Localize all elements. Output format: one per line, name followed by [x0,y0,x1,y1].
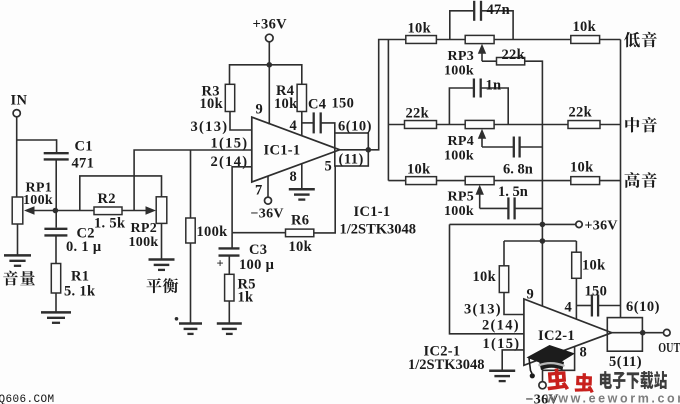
wire node to R6 [232,232,285,234]
terminal -36V IC1 [265,197,272,204]
potentiometer RP5 [465,177,494,185]
svg-text:Q606.COM: Q606.COM [0,394,55,404]
resistor R2 [94,207,122,215]
svg-text:10k: 10k [200,96,224,112]
watermark graduation cap [527,345,576,368]
wire pin 1(15) IC2 [502,350,524,371]
svg-text:RP4: RP4 [448,134,475,149]
wire apex to output dot [340,149,369,151]
label bass [624,32,640,47]
resistor bass right 10k [571,36,600,44]
potentiometer RP1 [12,197,23,224]
ground below 100k [179,322,202,325]
svg-text:C4: C4 [308,96,326,112]
resistor treble right 10k [571,177,600,185]
wire right 10k to pin 4 [575,278,577,319]
wire right bus [620,40,622,319]
wire RP2 to ground [161,223,163,259]
svg-text:100k: 100k [197,224,229,240]
svg-text:www.eeworm.com: www.eeworm.com [545,392,680,404]
wire mid row left [388,124,404,126]
svg-text:5(11): 5(11) [609,354,642,370]
wire junction down to C2 [55,211,57,228]
capacitor 47n bridge [450,11,474,40]
label balance [146,278,161,293]
terminal IN [13,110,20,117]
wire apex to out dot IC2 [612,332,643,334]
svg-text:8: 8 [290,169,298,185]
svg-text:47n: 47n [487,2,510,18]
svg-text:IC1-1: IC1-1 [264,143,301,159]
svg-text:100k: 100k [444,204,474,219]
wire R3 to pin 3(13) [230,112,252,131]
svg-text:C1: C1 [75,139,93,155]
resistor R4 [297,84,306,111]
terminal -36V IC2 [539,382,546,389]
watermark bug 2 [575,373,595,393]
resistor IC2 left 10k [499,266,508,293]
svg-text:10k: 10k [274,96,298,112]
wire RP5 to treble right [494,180,571,182]
wire R4 to pin 4 [301,112,303,137]
resistor R6 [286,229,314,237]
svg-text:10k: 10k [570,160,594,176]
watermark site name [600,371,612,389]
wire bass left to RP3 [436,39,465,41]
svg-text:22k: 22k [502,47,526,63]
junction dot volume node [53,208,59,214]
svg-text:RP5: RP5 [448,190,475,205]
wire pin 9 [268,65,270,125]
wire +36V down [268,42,270,65]
wire R6 to pin 5 [314,166,335,233]
ground below RP1 [4,254,31,257]
wire 6.8n to bus [520,146,543,148]
wire mid left to RP4 [437,124,466,126]
wire 150 to right bus [598,305,620,307]
capacitor C4 [313,112,315,133]
svg-text:R2: R2 [98,191,116,207]
node speck [175,317,179,321]
ground pin 1 IC2 [489,369,515,372]
svg-text:10k: 10k [289,239,313,255]
svg-text:RP3: RP3 [448,49,475,64]
svg-text:1n: 1n [486,78,502,94]
wire R2 to RP2 arrow [122,210,146,212]
wiper arrow RP1 [30,210,55,212]
wire bass right to bus [600,39,621,41]
svg-text:10k: 10k [473,269,497,285]
op-amp IC2 triangle [524,299,612,365]
svg-text:100k: 100k [23,193,53,208]
wire rail to R3 [229,64,231,84]
potentiometer RP3 [465,35,494,43]
svg-text:100k: 100k [444,149,474,164]
capacitor 150 IC2 [591,295,593,317]
wire node to C3 [231,233,233,248]
svg-text:1. 5n: 1. 5n [498,184,528,200]
capacitor 6.8n [513,137,515,158]
svg-text:6(10): 6(10) [626,299,660,315]
wire pin 8 IC2 [543,347,575,370]
junction dot +36V rail [267,62,273,68]
wire R1 to ground [55,293,57,312]
wire IC1 out to bass row [368,40,406,150]
output box IC1 [335,133,369,166]
svg-text:100k: 100k [129,235,159,250]
wire +36V rail [230,64,302,66]
svg-text:6. 8n: 6. 8n [503,161,533,177]
wire pin 2(14) [232,167,252,233]
svg-text:RP2: RP2 [131,221,158,236]
wire 100k to ground [190,243,192,323]
label treble [624,172,639,188]
svg-text:8: 8 [580,345,588,361]
resistor mid left 22k [405,121,437,129]
potentiometer RP2 [156,197,167,224]
svg-text:1/2STK3048: 1/2STK3048 [408,357,485,373]
svg-text:1(15): 1(15) [211,136,249,152]
junction dot bias rail [540,238,546,244]
svg-text:471: 471 [72,156,95,172]
wire RP5 wiper to 1.5n [480,207,508,209]
wire RP3 wiper to 22k [482,60,497,62]
wire R5 to ground [228,301,230,323]
wire RP3 to bass right [494,39,571,41]
capacitor C3 electrolytic [219,247,240,249]
wiper RP4 [478,129,486,139]
potentiometer RP4 [465,120,494,128]
svg-text:R6: R6 [291,213,309,229]
svg-text:1/2STK3048: 1/2STK3048 [340,222,417,238]
wire C4 to output box [321,123,335,133]
svg-text:10k: 10k [408,20,432,36]
svg-text:9: 9 [256,102,264,118]
wire RP1 to ground [17,224,19,255]
svg-text:1k: 1k [238,290,255,306]
svg-text:4: 4 [290,118,298,134]
wiper arrow RP2 [146,206,157,214]
output box IC2 [607,318,642,352]
svg-text:C3: C3 [249,242,267,258]
svg-text:2(14): 2(14) [482,318,520,334]
wire to OUT terminal [643,332,664,334]
svg-text:10k: 10k [407,162,431,178]
wire pin4 branch to 150 [576,305,592,307]
resistor R1 [51,264,60,294]
wire RP4 to mid right [494,124,568,126]
ground below R5 [217,322,242,325]
resistor bass left 10k [406,36,437,44]
svg-text:100k: 100k [444,64,474,79]
wire mid right to bus [600,124,621,126]
wire pin 7 IC2 [542,358,544,382]
svg-text:0. 1 μ: 0. 1 μ [66,239,102,255]
wire left 10k top [503,241,505,266]
svg-text:(11): (11) [339,152,364,168]
resistor IC2 right 10k [572,252,581,278]
svg-text:6(10): 6(10) [338,119,372,135]
svg-text:3(13): 3(13) [191,119,229,135]
resistor treble left 10k [406,177,437,185]
svg-text:10k: 10k [582,258,606,274]
resistor R3 [225,84,234,111]
wire +36V rail IC2 [450,223,577,225]
svg-text:1. 5k: 1. 5k [94,216,126,232]
ground below RP2 [149,258,175,261]
svg-text:150: 150 [585,284,608,300]
watermark bug 1 [546,368,569,391]
svg-text:−36V: −36V [251,207,284,222]
svg-text:100 μ: 100 μ [239,257,275,273]
wire bias rail IC2 [504,240,576,242]
capacitor C2 [44,228,67,230]
wire IN branch to C1 [17,139,57,141]
wire tap to pin 1(15) [134,150,252,211]
wire treble left to RP5 [437,180,466,182]
svg-text:5. 1k: 5. 1k [64,284,96,300]
wire C1 to junction [55,160,57,211]
op-amp IC1 triangle [252,117,340,182]
svg-text:+36V: +36V [585,219,618,234]
wire 1.5n to bus [515,207,543,209]
wire treble row left [388,180,405,182]
resistor 22k feedback bass [497,58,525,65]
wire pin4 to C4 [302,122,314,124]
svg-text:22k: 22k [569,105,593,121]
wire rail to R4 [301,64,303,84]
svg-text:4: 4 [565,300,573,316]
label volume [3,271,18,286]
svg-text:9: 9 [527,287,535,303]
wire treble right to bus [600,180,621,182]
resistor R5 [225,274,234,301]
capacitor C1 [44,152,69,154]
wire left 10k to pin 3(13) [504,293,524,315]
wire bus to mid treble rows [387,40,389,181]
wire C2 to R1 [55,236,57,264]
wire RP4 wiper to 6.8n [482,146,514,148]
label mid [625,117,639,132]
junction dot IC1 output [366,147,372,153]
wire IN down to RP1 [16,117,18,197]
svg-text:10k: 10k [573,19,597,35]
svg-text:OUT: OUT [658,339,680,355]
junction dot bus +36V [540,222,546,228]
wire bridge to RP2 top [80,176,162,211]
wire junction to R2 [55,210,94,212]
svg-text:IC2-1: IC2-1 [538,328,575,344]
svg-text:150: 150 [332,96,355,112]
svg-text:5: 5 [325,159,333,175]
ground below R1 [41,311,71,314]
svg-text:3(13): 3(13) [464,302,502,318]
svg-text:IC1-1: IC1-1 [354,204,391,220]
wire 22k to bus [525,61,543,306]
label OUT [658,339,680,355]
wire rail down to pin 2(14) [450,224,524,333]
wire pin 7 [267,176,269,197]
ground pin 8 IC1 [289,188,315,191]
svg-text:+36V: +36V [253,17,288,33]
svg-text:R1: R1 [71,269,89,285]
wire 100k input resistor drop [190,150,192,218]
wire right 10k top [575,241,577,252]
terminal OUT [664,329,671,336]
wiper RP5 [476,185,484,195]
capacitor 1.5n [507,197,509,219]
terminal +36V IC2 [576,221,582,227]
wire C3 to R5 [228,256,230,275]
wiper RP3 [478,44,486,54]
svg-text:7: 7 [255,183,263,199]
junction dot IC2 output [640,330,646,336]
svg-text:22k: 22k [406,106,430,122]
svg-text:IN: IN [11,93,28,109]
wire pin 8 [301,164,303,189]
capacitor 1n bridge [449,88,473,125]
svg-text:+: + [217,257,224,271]
resistor 100k to ground [186,218,195,243]
terminal +36V [266,34,274,42]
resistor mid right 22k [568,121,600,129]
